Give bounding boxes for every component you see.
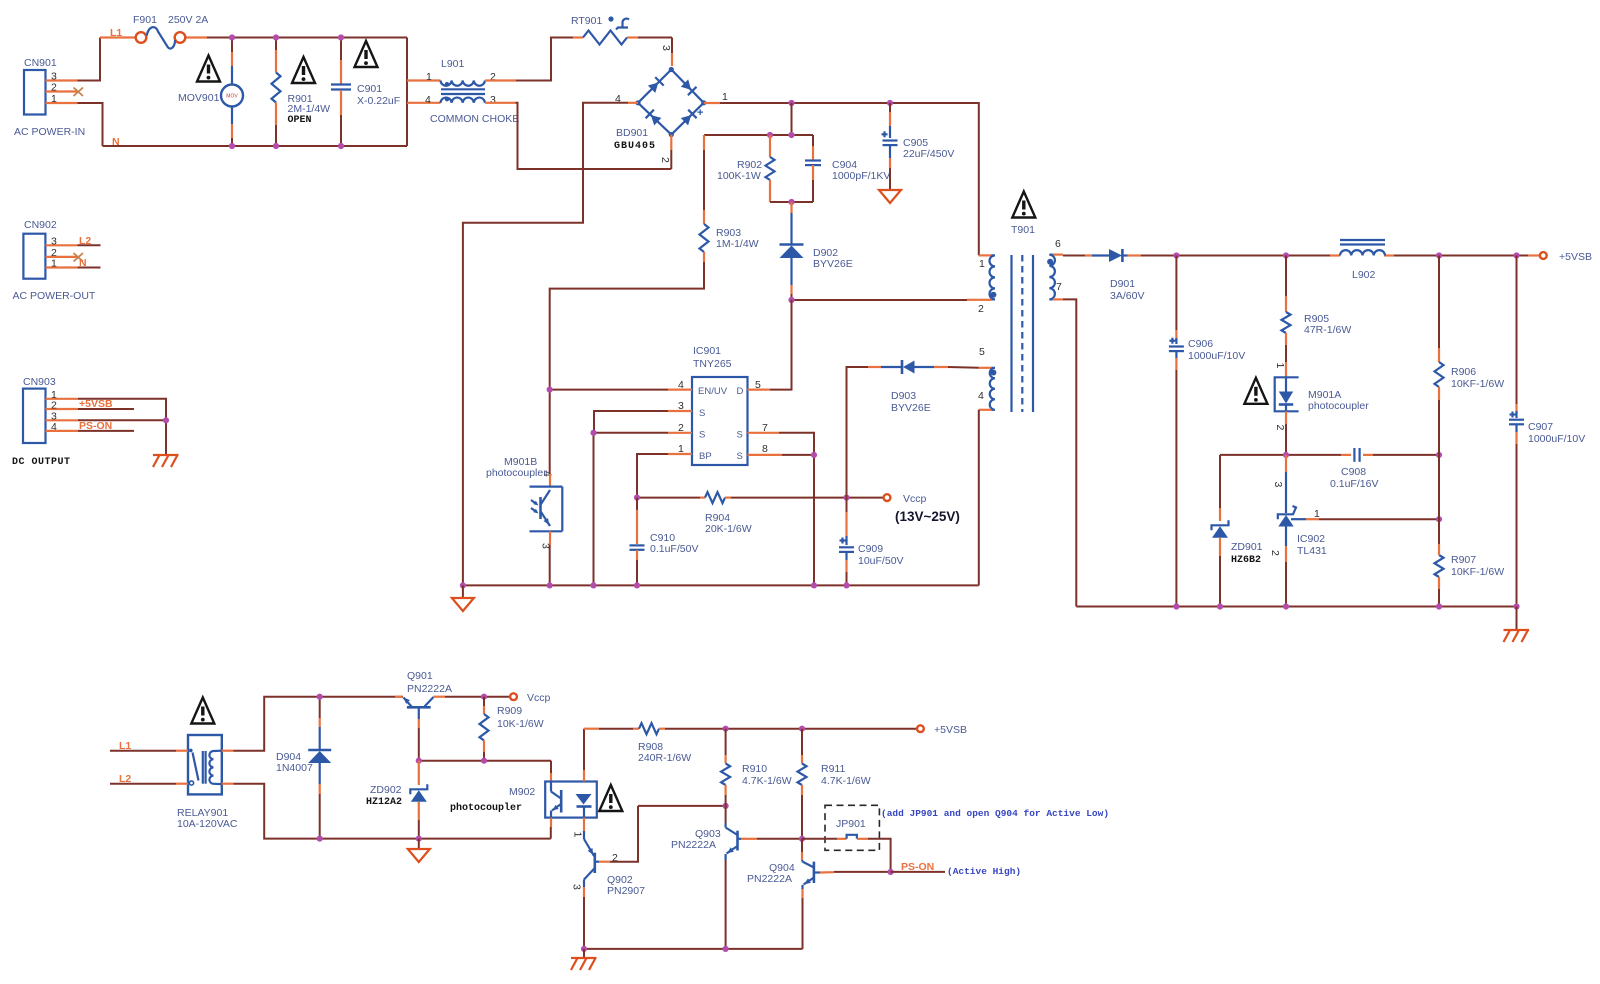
svg-text:RT901: RT901 xyxy=(571,15,602,27)
resistor R904 xyxy=(634,492,887,535)
svg-text:ZD901: ZD901 xyxy=(1231,541,1263,553)
svg-text:1M-1/4W: 1M-1/4W xyxy=(716,238,759,250)
wire CN901 pin1 to N rail xyxy=(78,103,103,146)
svg-text:(13V~25V): (13V~25V) xyxy=(895,509,960,524)
wire CN901 pin3 to L1 rail xyxy=(78,38,101,81)
svg-text:3: 3 xyxy=(1272,482,1284,488)
wire BD901 pin1 (+) rail to T901 pin1 xyxy=(704,91,979,255)
svg-text:3: 3 xyxy=(571,884,583,890)
resistor R909 xyxy=(480,697,544,761)
svg-text:1: 1 xyxy=(722,91,728,103)
svg-text:4: 4 xyxy=(542,471,554,477)
no-connect X on CN901 pin 2 xyxy=(74,88,84,97)
svg-text:2: 2 xyxy=(659,157,671,163)
secondary return bus xyxy=(1076,603,1519,609)
wire L1 rail xyxy=(100,36,407,38)
IC IC901 TNY265 xyxy=(668,345,782,465)
svg-text:R906: R906 xyxy=(1451,366,1476,378)
svg-text:M902: M902 xyxy=(509,786,535,798)
svg-text:C909: C909 xyxy=(858,543,883,555)
resistor R905 xyxy=(1282,256,1352,363)
svg-text:EN/UV: EN/UV xyxy=(698,386,728,397)
node N label xyxy=(112,136,120,148)
svg-text:3: 3 xyxy=(678,400,684,412)
svg-text:1: 1 xyxy=(51,258,57,270)
node L1 label xyxy=(110,27,122,39)
resistor R903 xyxy=(700,135,759,262)
svg-text:C906: C906 xyxy=(1188,338,1213,350)
wire Q902 base row to R910 node xyxy=(638,803,729,809)
svg-text:TL431: TL431 xyxy=(1297,545,1327,557)
wire +5VSB secondary rail xyxy=(1141,252,1540,258)
svg-text:1: 1 xyxy=(572,832,584,838)
svg-text:AC POWER-OUT: AC POWER-OUT xyxy=(13,290,96,302)
wire T901 pin2 to D902 anode node xyxy=(788,297,978,303)
node L2 label + stub xyxy=(78,235,101,247)
resistor R910 xyxy=(721,729,792,806)
svg-text:(Active High): (Active High) xyxy=(947,866,1021,877)
svg-text:0.1uF/16V: 0.1uF/16V xyxy=(1330,478,1378,490)
svg-text:1: 1 xyxy=(1314,508,1320,520)
wire N rail xyxy=(103,145,408,147)
T901 primary winding 1-2 xyxy=(978,255,996,315)
svg-text:S: S xyxy=(699,408,705,419)
svg-text:4.7K-1/6W: 4.7K-1/6W xyxy=(821,775,871,787)
svg-text:R911: R911 xyxy=(821,763,845,775)
wire L901 pin3 down-right to BD901 pin2 xyxy=(485,103,671,169)
svg-text:1: 1 xyxy=(979,258,985,270)
svg-text:C907: C907 xyxy=(1528,421,1553,433)
diode D903 xyxy=(847,360,979,498)
svg-text:4: 4 xyxy=(51,421,57,433)
photocoupler M901A (LED side) xyxy=(1244,362,1369,455)
svg-text:3: 3 xyxy=(660,45,672,51)
svg-text:R910: R910 xyxy=(742,763,767,775)
node junction on + rail xyxy=(788,100,893,106)
capacitor C907 xyxy=(1509,256,1585,607)
capacitor C909 xyxy=(839,498,904,586)
node +5VSB label + stub (CN903 pin2) xyxy=(78,398,134,410)
svg-text:JP901: JP901 xyxy=(836,818,866,830)
svg-text:BD901: BD901 xyxy=(616,127,648,139)
transistor Q903 xyxy=(671,806,802,949)
svg-text:GBU405: GBU405 xyxy=(614,141,656,152)
svg-text:N: N xyxy=(112,136,120,148)
ground (slash) CN903 xyxy=(153,455,179,467)
terminal Vccp xyxy=(884,493,960,524)
svg-text:Vccp: Vccp xyxy=(903,493,927,505)
svg-text:C901: C901 xyxy=(357,83,382,95)
svg-text:Q901: Q901 xyxy=(407,670,433,682)
svg-text:1000uF/10V: 1000uF/10V xyxy=(1188,350,1245,362)
wire BD901 pin4 route to primary return xyxy=(463,93,638,585)
svg-text:ZD902: ZD902 xyxy=(370,784,402,796)
svg-text:HZ6B2: HZ6B2 xyxy=(1231,555,1261,566)
svg-text:PN2222A: PN2222A xyxy=(407,683,452,695)
svg-text:6: 6 xyxy=(1055,238,1061,250)
svg-text:2: 2 xyxy=(1269,550,1281,556)
wire snubber bottom node xyxy=(770,199,813,205)
svg-text:CN901: CN901 xyxy=(24,57,57,69)
svg-text:3: 3 xyxy=(490,94,496,106)
wire IC902 ref pin1 to divider xyxy=(1291,508,1442,522)
svg-text:HZ12A2: HZ12A2 xyxy=(366,797,402,808)
terminal Vccp (standby) xyxy=(481,692,551,704)
photocoupler M902 xyxy=(450,782,622,839)
primary return bus xyxy=(460,582,979,588)
wire BD901 pin2 bottom stub xyxy=(659,135,671,169)
wire R903 to IC901 EN/UV xyxy=(550,262,704,474)
wire IC901 pin3 S xyxy=(594,411,668,433)
svg-text:C908: C908 xyxy=(1341,466,1366,478)
svg-text:10A-120VAC: 10A-120VAC xyxy=(177,818,238,830)
wire IC901 pin4 EN/UV to R903 node xyxy=(547,387,668,393)
svg-text:1000uF/10V: 1000uF/10V xyxy=(1528,433,1585,445)
svg-text:100K-1W: 100K-1W xyxy=(717,170,761,182)
svg-text:S: S xyxy=(699,430,705,441)
svg-text:20K-1/6W: 20K-1/6W xyxy=(705,523,752,535)
svg-text:4: 4 xyxy=(678,379,684,391)
zener ZD901 xyxy=(1212,455,1263,607)
svg-text:D903: D903 xyxy=(891,390,916,402)
svg-text:2: 2 xyxy=(678,422,684,434)
svg-text:CN902: CN902 xyxy=(24,219,57,231)
svg-text:2: 2 xyxy=(978,303,984,315)
svg-text:10K-1/6W: 10K-1/6W xyxy=(497,718,544,730)
diode D904 xyxy=(276,694,331,842)
svg-text:2M-1/4W: 2M-1/4W xyxy=(288,103,331,115)
varistor MOV901 xyxy=(178,38,243,147)
svg-text:MOV: MOV xyxy=(226,94,238,100)
annotation active low xyxy=(881,808,1109,819)
node N label + stub xyxy=(78,257,101,269)
svg-text:2: 2 xyxy=(51,82,57,94)
capacitor C908 xyxy=(1220,448,1442,490)
svg-text:L901: L901 xyxy=(441,58,465,70)
svg-text:D: D xyxy=(737,386,744,397)
capacitor C910 xyxy=(630,498,699,586)
wire M902 LED anode to +5VSB row xyxy=(583,729,585,782)
svg-text:8: 8 xyxy=(762,443,768,455)
svg-text:1: 1 xyxy=(1274,363,1286,369)
relay RELAY901 xyxy=(177,698,238,831)
svg-text:1N4007: 1N4007 xyxy=(276,762,313,774)
svg-text:1: 1 xyxy=(426,71,432,83)
svg-text:IC901: IC901 xyxy=(693,345,721,357)
T901 aux winding 5-4 xyxy=(978,346,996,410)
terminal +5VSB xyxy=(1540,251,1592,263)
svg-text:R907: R907 xyxy=(1451,554,1476,566)
svg-text:PN2222A: PN2222A xyxy=(747,873,792,885)
svg-text:MOV901: MOV901 xyxy=(178,92,220,104)
node PS-ON label + stub (CN903 pin4) xyxy=(78,420,134,432)
wire T901 pin4 down to primary return xyxy=(978,410,980,586)
jumper JP901 xyxy=(802,805,891,872)
ground (open triangle) under C905 xyxy=(879,190,901,203)
svg-text:IC902: IC902 xyxy=(1297,533,1325,545)
svg-text:1: 1 xyxy=(51,93,57,105)
svg-text:L902: L902 xyxy=(1352,269,1376,281)
svg-text:7: 7 xyxy=(762,422,768,434)
svg-text:photocoupler: photocoupler xyxy=(450,802,522,814)
wire T901 pin7 down to secondary return xyxy=(1063,299,1076,606)
resistor R907 xyxy=(1435,544,1505,607)
svg-text:22uF/450V: 22uF/450V xyxy=(903,148,954,160)
shunt regulator IC902 TL431 xyxy=(1269,455,1327,607)
svg-text:BYV26E: BYV26E xyxy=(891,402,931,414)
svg-text:BP: BP xyxy=(699,451,712,462)
svg-text:4: 4 xyxy=(425,94,431,106)
resistor R911 xyxy=(798,729,871,842)
common mode choke L901 xyxy=(425,58,519,125)
capacitor C906 xyxy=(1169,256,1245,607)
capacitor C901 xyxy=(331,38,400,147)
svg-text:R909: R909 xyxy=(497,705,522,717)
node L2 (relay) xyxy=(110,773,188,785)
diode D901 xyxy=(1063,249,1144,302)
capacitor C905 xyxy=(882,103,955,190)
T901 secondary winding 6-7 xyxy=(1047,238,1063,299)
svg-text:7: 7 xyxy=(1056,281,1062,293)
svg-text:TNY265: TNY265 xyxy=(693,358,732,370)
wire IC901 pin5 D up to T901 pin2 node xyxy=(770,300,792,390)
svg-text:0.1uF/50V: 0.1uF/50V xyxy=(650,543,698,555)
wire IC901 pin1 BP down to Vccp row xyxy=(637,454,668,498)
svg-text:2: 2 xyxy=(1274,425,1286,431)
connector CN901 xyxy=(14,57,85,138)
resistor R902 xyxy=(717,135,775,202)
diode D902 xyxy=(780,202,853,300)
connector CN903 xyxy=(12,376,78,468)
svg-text:S: S xyxy=(737,451,743,462)
svg-text:COMMON CHOKE: COMMON CHOKE xyxy=(430,113,519,125)
ground (open triangle) under ZD902 rail xyxy=(408,839,430,862)
svg-text:4.7K-1/6W: 4.7K-1/6W xyxy=(742,775,792,787)
svg-text:(add JP901 and open Q904 for A: (add JP901 and open Q904 for Active Low) xyxy=(881,808,1109,819)
resistor R908 xyxy=(584,723,916,764)
svg-text:+5VSB: +5VSB xyxy=(934,724,967,736)
wire + rail down to snubber top node xyxy=(704,103,813,138)
svg-text:3A/60V: 3A/60V xyxy=(1110,290,1144,302)
svg-text:250V 2A: 250V 2A xyxy=(168,14,208,26)
transformer T901 xyxy=(1011,192,1035,413)
svg-text:S: S xyxy=(737,430,743,441)
inductor L902 xyxy=(1340,240,1385,281)
wire L901 pin2 up to RT901 rail xyxy=(485,38,583,81)
junction dots on L1/N rails xyxy=(229,34,344,149)
wire input box right edge to L901 xyxy=(407,38,441,147)
svg-text:D901: D901 xyxy=(1110,278,1135,290)
photocoupler M901B (transistor side) xyxy=(486,456,562,585)
svg-text:CN903: CN903 xyxy=(23,376,56,388)
svg-text:F901: F901 xyxy=(133,14,157,26)
svg-text:1000pF/1KV: 1000pF/1KV xyxy=(832,170,890,182)
fuse F901 xyxy=(133,14,208,49)
svg-text:10KF-1/6W: 10KF-1/6W xyxy=(1451,566,1504,578)
transistor Q902 xyxy=(571,806,646,949)
no-connect X on CN902 pin 2 xyxy=(74,253,84,262)
svg-text:5: 5 xyxy=(755,379,761,391)
svg-text:1: 1 xyxy=(678,443,684,455)
svg-text:PN2222A: PN2222A xyxy=(671,839,716,851)
svg-text:OPEN: OPEN xyxy=(288,115,312,126)
svg-text:+5VSB: +5VSB xyxy=(1559,251,1592,263)
svg-text:4: 4 xyxy=(978,390,984,402)
svg-text:10KF-1/6W: 10KF-1/6W xyxy=(1451,378,1504,390)
ground (slash) bottom xyxy=(571,949,597,970)
ground (open triangle) primary return xyxy=(452,585,474,611)
thermistor RT901 xyxy=(571,15,672,45)
node L1 (relay) xyxy=(110,740,188,752)
svg-text:T901: T901 xyxy=(1011,224,1035,236)
resistor R901 xyxy=(272,38,331,147)
ground rail bottom xyxy=(581,946,803,952)
svg-text:3: 3 xyxy=(51,235,57,247)
connector CN902 xyxy=(13,219,96,302)
node PS-ON xyxy=(888,861,1022,877)
svg-text:DC OUTPUT: DC OUTPUT xyxy=(12,457,71,468)
svg-text:10uF/50V: 10uF/50V xyxy=(858,555,904,567)
svg-text:5: 5 xyxy=(979,346,985,358)
wire relay to rectifier rails xyxy=(222,697,551,839)
svg-text:photocoupler: photocoupler xyxy=(1308,400,1369,412)
svg-text:X-0.22uF: X-0.22uF xyxy=(357,95,400,107)
svg-text:BYV26E: BYV26E xyxy=(813,258,853,270)
wire divider mid xyxy=(1438,455,1440,555)
svg-text:PS-ON: PS-ON xyxy=(901,861,934,873)
svg-text:47R-1/6W: 47R-1/6W xyxy=(1304,324,1351,336)
ground (slash) secondary xyxy=(1504,607,1530,643)
wire CN903 pins1/3 to ground xyxy=(78,399,169,455)
svg-text:Vccp: Vccp xyxy=(527,692,551,704)
capacitor C904 xyxy=(805,135,890,202)
svg-text:240R-1/6W: 240R-1/6W xyxy=(638,752,691,764)
wire IC901 pins7/8 to source vertical xyxy=(779,433,817,586)
svg-text:+: + xyxy=(697,107,703,119)
transistor Q904 xyxy=(747,839,891,949)
zener ZD902 xyxy=(366,761,427,842)
transistor Q901 xyxy=(395,670,510,761)
bridge rectifier BD901 xyxy=(614,38,706,153)
wire base rail Q901/ZD902/R909/M902 xyxy=(416,758,551,782)
svg-text:PN2907: PN2907 xyxy=(607,885,645,897)
wire IC901 pin2 S to source vertical xyxy=(590,430,668,586)
terminal +5VSB (bottom) xyxy=(917,724,967,736)
resistor R906 xyxy=(1435,256,1505,455)
svg-text:photocoupler: photocoupler xyxy=(486,467,547,479)
svg-text:AC POWER-IN: AC POWER-IN xyxy=(14,126,85,138)
